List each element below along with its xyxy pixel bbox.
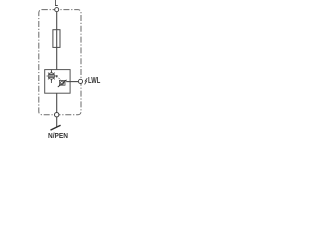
LWL lightning glyph xyxy=(85,78,88,84)
trigger device box xyxy=(59,80,65,85)
trigger dashed arrow xyxy=(58,77,61,80)
spark gap radial ticks xyxy=(47,71,57,81)
spark gap circle xyxy=(48,73,54,79)
svg-text:N/PEN: N/PEN xyxy=(48,131,68,140)
terminal N/PEN circle xyxy=(55,113,59,117)
svg-text:L: L xyxy=(55,0,58,8)
N/PEN slash xyxy=(51,125,61,130)
trigger device circle xyxy=(61,81,64,84)
SPD box xyxy=(45,70,70,94)
spark gap electrode bars xyxy=(49,74,54,75)
wire box to N/PEN xyxy=(56,93,58,112)
wire box to LWL terminal xyxy=(66,81,78,83)
stub spark gap to below xyxy=(50,79,52,83)
trigger device slash xyxy=(58,80,67,87)
fuse F1 xyxy=(53,30,60,48)
enclosure dash-dot border xyxy=(39,10,81,115)
terminal L circle xyxy=(55,8,59,12)
wire fuse to box xyxy=(56,47,58,70)
trigger arrowhead xyxy=(56,75,58,78)
terminal LWL circle xyxy=(78,79,82,83)
wire below bottom terminal xyxy=(56,117,58,128)
wire L terminal to fuse xyxy=(56,12,58,31)
svg-text:LWL: LWL xyxy=(88,76,100,85)
wire through fuse xyxy=(56,30,58,47)
stub box top to spark gap xyxy=(50,70,52,73)
